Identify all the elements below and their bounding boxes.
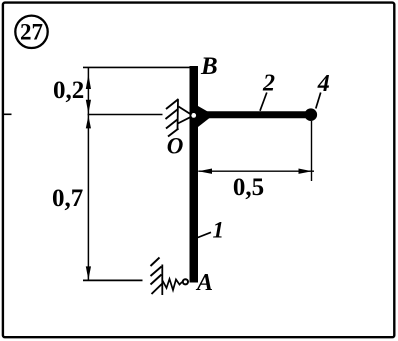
arrow down at A <box>86 266 91 280</box>
tick line at level B <box>83 66 193 68</box>
svg-text:A: A <box>195 270 213 296</box>
hatch ticks of support A <box>151 258 163 295</box>
svg-text:0,5: 0,5 <box>233 174 264 201</box>
gusset triangle at pivot O <box>198 106 214 127</box>
dimension line 0,5 <box>198 170 314 172</box>
svg-text:4: 4 <box>317 71 330 97</box>
svg-text:0,7: 0,7 <box>52 185 83 212</box>
svg-text:O: O <box>167 134 184 159</box>
wall line of support A <box>161 265 163 296</box>
tick line at level O <box>88 114 163 116</box>
zigzag link at support A <box>163 279 183 290</box>
hatch ticks of support O <box>166 99 179 137</box>
svg-text:1: 1 <box>213 218 225 243</box>
leader line for label 2 <box>260 93 267 111</box>
bracket links from wall to pin O <box>178 107 192 124</box>
pin circle at A <box>183 279 188 284</box>
svg-text:B: B <box>200 53 218 80</box>
arrow right of dim 0,5 <box>299 169 313 174</box>
problem number circle 27 <box>15 16 47 48</box>
vertical dimension line B-A <box>87 67 89 280</box>
wall line of support O <box>177 100 180 130</box>
ball end 4 <box>305 108 318 121</box>
svg-text:27: 27 <box>20 19 43 44</box>
rod 2 (horizontal bar O-4) <box>205 111 308 118</box>
small tick on left border at O level <box>4 113 12 115</box>
leader line for label 4 <box>316 93 321 109</box>
arrow up at O lower <box>86 116 91 129</box>
arrow left of dim 0,5 <box>198 169 212 174</box>
arrow down at O upper <box>86 100 91 114</box>
extension line below ball 4 <box>311 121 313 181</box>
rod 1 (vertical bar B-A) <box>190 66 199 283</box>
leader line for label 1 <box>198 232 211 237</box>
pin hole at O <box>191 113 196 118</box>
svg-text:2: 2 <box>262 71 275 97</box>
svg-text:0,2: 0,2 <box>53 77 84 104</box>
arrow up at B <box>86 75 91 90</box>
tick line at level A <box>83 279 143 281</box>
